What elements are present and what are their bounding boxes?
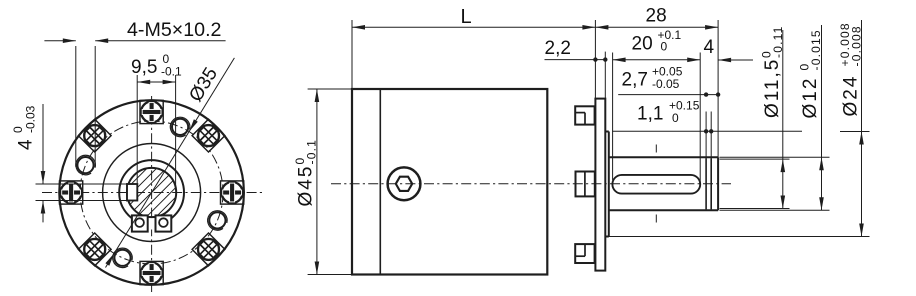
circlip gap white: [148, 219, 155, 230]
svg-text:L: L: [461, 6, 472, 28]
svg-text:4-M5×10.2: 4-M5×10.2: [127, 19, 222, 41]
motor body outline: [352, 89, 547, 275]
dim 20 ext lines: [613, 53, 701, 184]
svg-text:9,5: 9,5: [131, 57, 157, 78]
svg-text:4: 4: [704, 37, 715, 58]
svg-text:-0.03: -0.03: [23, 105, 37, 133]
shaft flat slot: [612, 175, 700, 194]
screw head 4 at 135deg: [78, 119, 111, 152]
svg-text:2,7: 2,7: [622, 70, 648, 91]
label 28: [646, 6, 667, 27]
svg-text:-0.1: -0.1: [305, 139, 319, 164]
M5 tapped hole 2: [76, 155, 96, 174]
tab top: [575, 106, 594, 124]
svg-text:-0.11: -0.11: [771, 26, 785, 58]
dim L ext line left: [351, 20, 353, 89]
label 4-M5x10.2: [127, 19, 222, 41]
svg-text:1,1: 1,1: [637, 104, 663, 125]
dim 4 ext lines: [36, 184, 128, 201]
svg-text:-0.008: -0.008: [850, 25, 864, 66]
label 4 side: [704, 37, 715, 58]
circlip ring circle: [119, 160, 184, 225]
pilot boss: [605, 132, 609, 237]
svg-text:20: 20: [632, 34, 653, 55]
ext line plate top: [594, 20, 596, 99]
label 2,7: [622, 65, 683, 91]
dim Ø35 line+arrows: [105, 58, 234, 268]
rear plate: [595, 99, 605, 271]
screw head 8 at 315deg: [192, 233, 225, 266]
label Ø45 0/-0.1: [293, 139, 319, 206]
shaft hatching front: [122, 66, 182, 296]
dim 20 line+arrows: [613, 58, 701, 63]
dim 9,5 ext lines: [137, 75, 175, 190]
label Ø12 0/-0.015: [798, 29, 824, 118]
bolt circle dash-dot: [80, 121, 223, 264]
svg-text:-0.1: -0.1: [161, 65, 182, 79]
dim Ø11,5 ext lines: [720, 159, 790, 208]
dim Ø11,5 line+arrows: [781, 30, 786, 209]
label Ø35: [185, 64, 222, 106]
dim 2,7 line+dots: [618, 92, 720, 96]
dim Ø12 ext lines: [720, 157, 830, 210]
circlip lug right: [156, 215, 172, 231]
tab bottom: [575, 244, 594, 263]
svg-text:2,2: 2,2: [545, 38, 571, 59]
label 2,2: [545, 38, 571, 59]
shaft outline: [609, 157, 718, 210]
M5 tapped hole 1: [170, 117, 190, 136]
front view centerline vertical: [151, 96, 153, 292]
M5 tapped hole 4: [208, 211, 228, 230]
screw head 2 at 45deg: [192, 119, 225, 152]
dim 1,1 line+dots: [612, 129, 802, 133]
label L: [461, 6, 472, 28]
dim Ø12 line+arrows: [819, 25, 824, 210]
label 9,5 0/-0.1: [131, 52, 182, 78]
svg-text:4: 4: [16, 139, 37, 150]
groove ext lines up: [706, 112, 711, 159]
svg-text:28: 28: [646, 6, 667, 27]
flange outer circle front: [59, 100, 244, 285]
circlip lug left: [132, 215, 148, 231]
front view centerline horizontal: [42, 192, 262, 194]
dim 4 line+arrow right: [718, 58, 753, 63]
screw head 3 at 90deg: [140, 100, 163, 123]
shaft circle front: [127, 168, 176, 217]
M5 tapped hole 3: [113, 248, 133, 267]
side centerline: [331, 183, 731, 185]
svg-text:-0.015: -0.015: [809, 29, 823, 70]
dim Ø24 ext lines: [606, 132, 870, 237]
circlip groove: [706, 158, 711, 209]
dim 4-M5x10.2 line+arrows: [44, 38, 225, 43]
shaft flat keyway rect front: [127, 184, 137, 201]
label 4 0/-0.03: [11, 105, 37, 150]
svg-text:0: 0: [661, 39, 668, 53]
dim Ø45 ext lines: [308, 89, 352, 275]
svg-text:-0.05: -0.05: [652, 77, 680, 91]
dim 2,2 ext line: [604, 52, 606, 99]
screw head 6 at 225deg: [78, 233, 111, 266]
svg-text:0: 0: [672, 111, 679, 125]
pilot boss circle front: [103, 144, 201, 242]
label 20 +0.1/0: [632, 28, 682, 54]
svg-text:Ø11,5: Ø11,5: [762, 58, 783, 118]
screw head 5 at 180deg: [60, 181, 83, 204]
label 1,1: [637, 99, 700, 125]
dim L line+arrows: [352, 25, 595, 30]
dim Ø45 line+arrows: [315, 89, 320, 275]
flange joint line: [379, 89, 381, 275]
dim 9,5 line+arrows: [137, 80, 175, 85]
svg-text:Ø24: Ø24: [841, 75, 862, 117]
dim Ø24 line+arrows: [859, 20, 864, 237]
svg-text:Ø12: Ø12: [800, 77, 821, 119]
dim 28 line+arrows: [595, 25, 718, 30]
svg-text:Ø45: Ø45: [296, 165, 317, 207]
slot vert center ticks: [655, 145, 657, 223]
side plug screw: [388, 167, 421, 200]
screw head 1 at 0deg: [221, 181, 244, 204]
dim 4-M5x10.2 ext lines: [76, 46, 95, 167]
label Ø24 +0.008/-0.008: [838, 22, 864, 116]
screw head 7 at 270deg: [140, 261, 163, 284]
label Ø11,5 0/-0.11: [760, 26, 786, 118]
dim 4 line+arrows: [41, 104, 46, 222]
shaft end ext line up: [717, 20, 719, 157]
dim 2,2 line+dots: [545, 57, 608, 61]
tab middle: [576, 172, 595, 197]
